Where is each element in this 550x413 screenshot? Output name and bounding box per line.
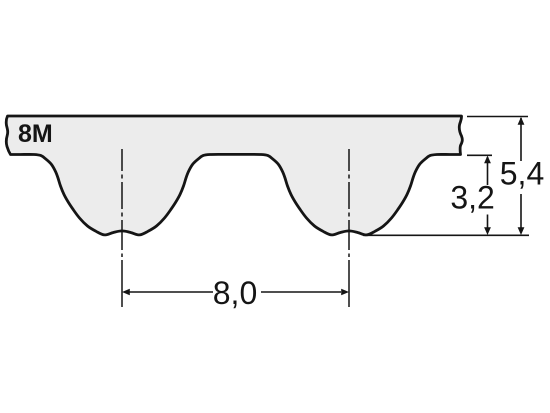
svg-text:3,2: 3,2: [450, 180, 494, 216]
svg-text:5,4: 5,4: [500, 156, 544, 192]
svg-text:8M: 8M: [18, 120, 53, 148]
svg-text:8,0: 8,0: [213, 275, 257, 311]
